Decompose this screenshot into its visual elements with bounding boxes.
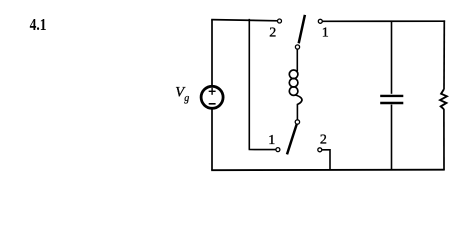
wire: capacitor branch lower (391, 105, 393, 170)
capacitor C (380, 95, 403, 97)
terminal 1 (top) (318, 19, 322, 23)
svg-text:2: 2 (269, 26, 276, 41)
svg-text:g: g (184, 93, 189, 104)
switch blade S1 (top) (299, 15, 305, 43)
svg-text:1: 1 (268, 133, 275, 148)
wire: top rail right segment (terminal 1 to top-right corner) (322, 20, 445, 22)
wire: inductor bottom to pivot (296, 104, 298, 120)
wire: inner branch horizontal to bottom terminal 1 (249, 149, 276, 151)
terminal 2 (top) (278, 19, 282, 23)
voltage source Vg (201, 86, 223, 108)
switch pivot (top) (295, 45, 299, 49)
terminal 2 (bottom) (318, 148, 322, 152)
wire: top rail left segment (top-left corner to terminal 2) (211, 20, 277, 21)
wire: capacitor branch upper (391, 21, 393, 94)
svg-text:2: 2 (320, 132, 327, 147)
resistor R (zigzag) (440, 89, 447, 109)
wire: right edge lower (resistor to bottom rail) (443, 109, 445, 170)
svg-text:1: 1 (322, 26, 329, 41)
plus sign of source (209, 90, 216, 92)
minus sign of source (209, 103, 216, 105)
wire: bottom terminal 2 stub to bottom rail (322, 150, 330, 170)
wire: inner branch vertical (junction on top rail down) (248, 19, 250, 150)
wire: right edge upper (top-right corner to resistor) (443, 20, 445, 89)
wire: left vertical from source bottom to bottom rail (211, 109, 213, 171)
svg-text:4.1: 4.1 (30, 15, 47, 34)
switch blade S2 (bottom) (287, 124, 297, 154)
wire: bottom rail (211, 169, 444, 172)
inductor L (scroll coil) (289, 70, 302, 104)
terminal 1 (bottom) (276, 148, 280, 152)
wire: left vertical from top rail down to source top (211, 20, 213, 86)
wire: pivot to inductor top (296, 49, 298, 71)
switch pivot (bottom) (295, 120, 299, 124)
